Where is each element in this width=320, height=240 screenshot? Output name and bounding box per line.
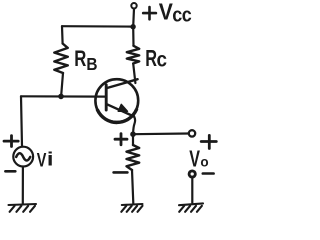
wire Vcc stub xyxy=(132,9,135,27)
svg-text:R: R xyxy=(74,47,86,72)
ground (emitter) xyxy=(121,204,142,212)
wire output top xyxy=(133,132,189,135)
label + (Vo) xyxy=(201,135,216,148)
wire RE to ground xyxy=(132,170,133,203)
wire base line xyxy=(21,95,106,97)
svg-text:R: R xyxy=(145,46,157,71)
svg-text:V: V xyxy=(159,0,173,25)
svg-text:o: o xyxy=(200,154,208,169)
node emitter junction xyxy=(130,131,136,137)
label + (Vi) xyxy=(4,136,18,147)
wire emitter xyxy=(133,117,135,135)
label RB xyxy=(74,47,97,74)
ground (output) xyxy=(179,203,203,211)
wire emitter junction to resistor xyxy=(132,134,134,145)
ground (input) xyxy=(9,204,37,212)
wire RB bottom xyxy=(61,73,63,94)
wire RB top drop xyxy=(61,26,64,43)
label - (emitter resistor) xyxy=(114,171,128,174)
wire input drop xyxy=(21,96,22,146)
source Vi xyxy=(13,147,33,167)
resistor Rc xyxy=(127,46,139,64)
svg-text:c: c xyxy=(157,49,168,72)
resistor RB xyxy=(54,44,68,74)
svg-text:B: B xyxy=(86,55,97,74)
node Vcc junction xyxy=(130,24,135,29)
svg-text:i: i xyxy=(47,149,54,170)
wire Vi to ground xyxy=(22,167,24,204)
svg-text:c: c xyxy=(182,5,192,27)
svg-text:V: V xyxy=(37,148,47,171)
transistor Q1 xyxy=(95,79,138,122)
terminal +Vcc xyxy=(131,3,136,8)
wire collector top xyxy=(132,27,135,46)
label - (Vi) xyxy=(5,170,15,173)
resistor RE xyxy=(127,145,140,170)
label + (emitter resistor) xyxy=(115,134,127,145)
label Vi xyxy=(37,148,54,171)
terminal Vo plus xyxy=(189,130,195,136)
label Vo xyxy=(189,147,208,172)
label +Vcc xyxy=(143,0,192,27)
label Rc xyxy=(145,46,167,71)
wire collector to transistor xyxy=(133,64,135,84)
terminal Vo minus xyxy=(189,171,195,177)
node base junction xyxy=(58,94,64,100)
wire Vo minus to ground xyxy=(191,177,193,203)
label - (Vo) xyxy=(203,172,214,175)
wire top rail xyxy=(62,25,133,28)
svg-text:V: V xyxy=(189,147,200,172)
